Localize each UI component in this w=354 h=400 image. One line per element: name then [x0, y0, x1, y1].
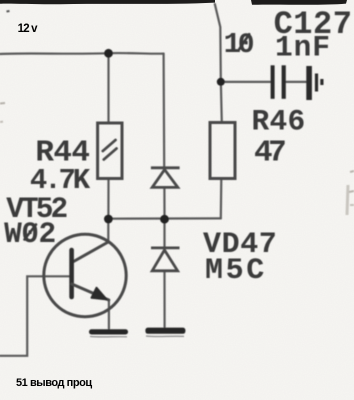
svg-text:47: 47 — [254, 136, 285, 171]
svg-text:M5C: M5C — [205, 254, 267, 288]
svg-text:1nF: 1nF — [275, 31, 331, 65]
svg-text:51 вывод проц: 51 вывод проц — [16, 377, 92, 389]
svg-text:12 v: 12 v — [18, 23, 39, 35]
svg-text:R46: R46 — [252, 105, 306, 139]
